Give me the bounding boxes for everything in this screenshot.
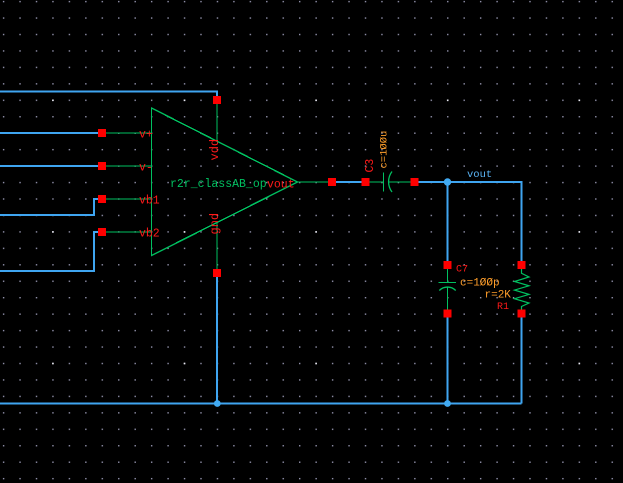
pin stem output vout xyxy=(298,181,332,183)
svg-text:gnd: gnd xyxy=(208,213,222,235)
wire net v+ xyxy=(0,132,100,134)
label pin vb1 xyxy=(139,195,160,208)
wire ground rail xyxy=(0,403,522,405)
pin stem gnd xyxy=(216,222,218,272)
pin square R1 bottom xyxy=(518,310,526,318)
label op-amp cell name r2r_classAB_op xyxy=(170,178,267,191)
pin stem vb1 xyxy=(103,198,152,200)
pin square vdd xyxy=(213,96,221,104)
pin square v- xyxy=(98,162,106,170)
svg-text:v+: v+ xyxy=(139,129,153,142)
label R1 designator xyxy=(497,302,509,313)
label R1 value r=2K xyxy=(485,290,512,302)
capacitor C7 xyxy=(439,267,457,311)
pin square R1 top xyxy=(518,261,526,269)
wire gnd pin to ground rail xyxy=(216,275,218,404)
junction gnd rail at C7 branch xyxy=(444,400,451,407)
pin stem v- xyxy=(103,165,152,167)
label net vout xyxy=(467,169,492,181)
label pin vb2 xyxy=(139,228,160,241)
pin square vb1 xyxy=(98,195,106,203)
svg-text:c=1ØØp: c=1ØØp xyxy=(460,278,500,290)
svg-text:c=1ØØu: c=1ØØu xyxy=(379,131,391,169)
svg-text:v-: v- xyxy=(139,162,153,175)
label pin gnd (rotated) xyxy=(208,213,222,235)
pin square C3 right xyxy=(411,178,419,186)
wire net vb1 xyxy=(0,199,100,215)
svg-text:C7: C7 xyxy=(456,265,468,276)
capacitor C3 xyxy=(370,172,413,193)
resistor R1 xyxy=(515,267,530,312)
pin square gnd xyxy=(213,269,221,277)
svg-text:vdd: vdd xyxy=(208,139,222,161)
junction gnd rail at op-amp gnd xyxy=(214,400,221,407)
label C7 value c=100p xyxy=(460,278,500,290)
wire vout node down to C7 xyxy=(447,182,449,263)
pin square op-amp output xyxy=(328,178,336,186)
label pin vdd (rotated) xyxy=(208,139,222,161)
svg-text:r=2K: r=2K xyxy=(485,290,512,302)
label C3 designator (rotated) xyxy=(364,159,377,173)
label pin v+ xyxy=(139,129,153,142)
label pin v- xyxy=(139,162,153,175)
pin square C7 top xyxy=(444,261,452,269)
label C3 value c=100u (rotated) xyxy=(379,131,391,169)
label op-amp output pin vout xyxy=(267,179,295,192)
pin stem vb2 xyxy=(103,231,152,233)
svg-text:vb2: vb2 xyxy=(139,228,160,241)
node vout junction dot xyxy=(444,178,451,185)
svg-text:vb1: vb1 xyxy=(139,195,160,208)
wire net v- xyxy=(0,165,100,167)
wire C7 bottom to ground rail xyxy=(447,315,449,404)
wire op-amp output to C3 xyxy=(334,181,363,183)
svg-text:vout: vout xyxy=(467,169,492,181)
pin stem vdd xyxy=(216,101,218,141)
svg-text:vout: vout xyxy=(267,179,295,192)
wire net vb2 xyxy=(0,232,100,271)
label C7 designator xyxy=(456,265,468,276)
wire vdd top rail xyxy=(0,92,217,100)
pin square vb2 xyxy=(98,228,106,236)
pin square v+ xyxy=(98,129,106,137)
wire C3 to vout node and R1 branch xyxy=(416,182,522,263)
pin square C7 bottom xyxy=(444,310,452,318)
op-amp U1 triangle body xyxy=(152,108,298,256)
pin stem v+ xyxy=(103,132,152,134)
svg-text:r2r_classAB_op: r2r_classAB_op xyxy=(170,178,267,191)
svg-text:R1: R1 xyxy=(497,302,509,313)
svg-text:C3: C3 xyxy=(364,159,377,173)
wire R1 bottom to ground rail xyxy=(521,315,523,404)
pin square C3 left xyxy=(362,178,370,186)
